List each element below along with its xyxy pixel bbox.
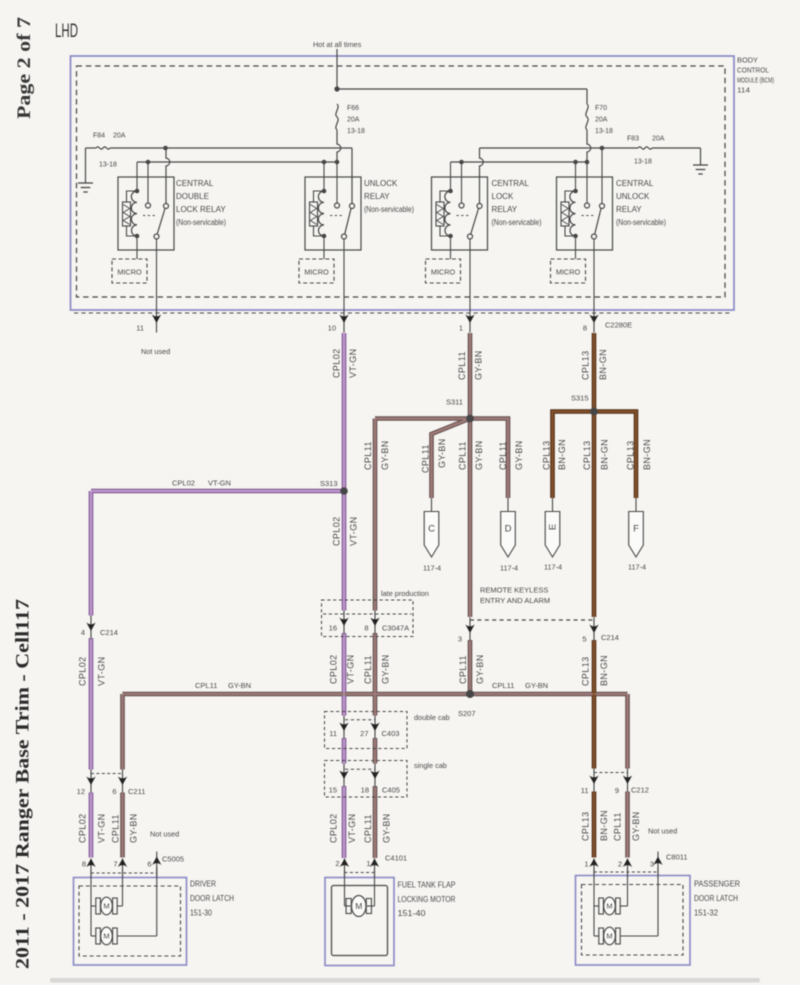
svg-text:BN-GN: BN-GN [598, 349, 608, 380]
svg-text:F: F [633, 524, 639, 535]
svg-text:F66: F66 [347, 105, 359, 112]
svg-text:CPL11: CPL11 [363, 655, 373, 684]
svg-text:CPL11: CPL11 [492, 681, 514, 690]
svg-text:10: 10 [328, 324, 336, 333]
svg-text:UNLOCK: UNLOCK [616, 192, 650, 201]
svg-text:2011 - 2017 Ranger Base Trim -: 2011 - 2017 Ranger Base Trim - Cell117 [13, 598, 34, 969]
svg-text:9: 9 [615, 786, 619, 795]
svg-text:PASSENGER: PASSENGER [694, 880, 740, 889]
svg-text:LOCK: LOCK [492, 192, 514, 201]
svg-text:CPL02: CPL02 [329, 654, 339, 684]
svg-text:CPL13: CPL13 [581, 656, 591, 686]
svg-text:VT-GN: VT-GN [348, 348, 358, 378]
svg-text:(Non-servicable): (Non-servicable) [364, 205, 414, 214]
svg-text:VT-GN: VT-GN [349, 516, 359, 546]
svg-text:1: 1 [584, 860, 588, 869]
svg-text:13-18: 13-18 [634, 159, 652, 166]
svg-text:BN-GN: BN-GN [642, 439, 652, 470]
svg-text:C405: C405 [382, 786, 400, 795]
svg-text:GY-BN: GY-BN [380, 440, 390, 470]
svg-text:BN-GN: BN-GN [599, 655, 609, 686]
svg-text:117-4: 117-4 [500, 564, 518, 573]
svg-text:BN-GN: BN-GN [599, 810, 609, 841]
svg-text:117-4: 117-4 [544, 563, 562, 572]
svg-text:117-4: 117-4 [628, 563, 646, 572]
svg-text:CENTRAL: CENTRAL [492, 179, 530, 188]
svg-text:E: E [548, 524, 559, 530]
svg-text:GY-BN: GY-BN [382, 813, 392, 843]
svg-text:CPL02: CPL02 [332, 348, 342, 378]
svg-text:ENTRY AND ALARM: ENTRY AND ALARM [480, 596, 550, 605]
svg-text:CPL11: CPL11 [363, 441, 373, 470]
svg-text:Not used: Not used [648, 827, 677, 836]
svg-text:CPL11: CPL11 [363, 814, 373, 843]
svg-text:11: 11 [581, 786, 589, 795]
svg-text:2: 2 [335, 859, 339, 868]
svg-text:(Non-servicable): (Non-servicable) [176, 218, 226, 227]
svg-text:CPL11: CPL11 [458, 655, 468, 684]
svg-text:151-30: 151-30 [190, 909, 212, 918]
svg-text:MICRO: MICRO [431, 268, 456, 277]
svg-text:CPL11: CPL11 [421, 444, 431, 473]
svg-text:late production: late production [381, 589, 429, 598]
svg-text:Hot at all times: Hot at all times [313, 40, 362, 49]
svg-text:6: 6 [147, 860, 151, 869]
svg-text:C2280E: C2280E [605, 321, 632, 330]
svg-text:CPL11: CPL11 [498, 441, 508, 470]
svg-text:20A: 20A [595, 117, 608, 124]
svg-text:GY-BN: GY-BN [437, 438, 447, 468]
svg-text:MODULE (BCM): MODULE (BCM) [737, 76, 774, 85]
svg-text:C4101: C4101 [385, 854, 407, 863]
svg-text:F84: F84 [93, 133, 105, 140]
svg-text:CPL02: CPL02 [78, 813, 88, 843]
svg-text:Not used: Not used [150, 830, 179, 839]
svg-text:GY-BN: GY-BN [475, 654, 485, 684]
svg-text:C211: C211 [128, 787, 145, 796]
svg-text:13-18: 13-18 [347, 128, 365, 135]
svg-text:13-18: 13-18 [595, 128, 613, 135]
svg-text:C5005: C5005 [162, 855, 184, 864]
svg-text:GY-BN: GY-BN [228, 681, 251, 690]
svg-text:DOOR LATCH: DOOR LATCH [694, 894, 738, 903]
svg-text:BN-GN: BN-GN [600, 439, 610, 470]
svg-text:CENTRAL: CENTRAL [176, 179, 214, 188]
svg-text:CPL02: CPL02 [332, 516, 342, 546]
svg-text:(Non-servicable): (Non-servicable) [492, 218, 542, 227]
svg-text:single cab: single cab [414, 761, 447, 770]
svg-text:MICRO: MICRO [117, 268, 142, 277]
svg-text:CONTROL: CONTROL [737, 66, 769, 75]
svg-text:151-32: 151-32 [694, 909, 719, 918]
svg-text:114: 114 [737, 86, 750, 95]
svg-text:Not used: Not used [141, 347, 170, 356]
svg-text:UNLOCK: UNLOCK [364, 179, 398, 188]
svg-text:CENTRAL: CENTRAL [616, 179, 654, 188]
svg-text:F70: F70 [595, 105, 607, 112]
svg-text:15: 15 [329, 786, 337, 795]
svg-text:S207: S207 [458, 709, 476, 718]
svg-text:FUEL TANK FLAP: FUEL TANK FLAP [398, 881, 456, 890]
svg-text:GY-BN: GY-BN [631, 811, 641, 841]
svg-text:CPL02: CPL02 [329, 813, 339, 843]
svg-text:LHD: LHD [55, 21, 78, 42]
svg-text:VT-GN: VT-GN [208, 479, 231, 488]
svg-text:GY-BN: GY-BN [474, 350, 484, 380]
svg-text:20A: 20A [347, 117, 360, 124]
svg-text:117-4: 117-4 [423, 564, 441, 573]
svg-text:11: 11 [136, 324, 144, 333]
svg-text:BN-GN: BN-GN [557, 439, 567, 470]
svg-text:CPL13: CPL13 [581, 350, 591, 380]
svg-text:11: 11 [329, 729, 337, 738]
svg-text:CPL11: CPL11 [458, 441, 468, 470]
svg-text:3: 3 [458, 635, 462, 644]
svg-text:CPL13: CPL13 [581, 811, 591, 841]
svg-text:27: 27 [360, 729, 368, 738]
svg-text:7: 7 [113, 860, 117, 869]
svg-text:CPL11: CPL11 [613, 812, 623, 841]
svg-text:D: D [505, 524, 512, 535]
svg-text:C8011: C8011 [666, 853, 688, 862]
svg-text:CPL11: CPL11 [111, 814, 121, 843]
svg-text:8: 8 [82, 860, 86, 869]
svg-text:DRIVER: DRIVER [190, 880, 216, 889]
svg-text:VT-GN: VT-GN [97, 813, 107, 843]
svg-text:DOUBLE: DOUBLE [176, 192, 209, 201]
svg-text:VT-GN: VT-GN [97, 656, 107, 686]
svg-text:Page 2 of 7: Page 2 of 7 [15, 17, 35, 119]
svg-text:CPL13: CPL13 [542, 440, 552, 470]
svg-text:GY-BN: GY-BN [474, 440, 484, 470]
svg-text:LOCK RELAY: LOCK RELAY [176, 205, 226, 214]
svg-text:20A: 20A [113, 133, 126, 140]
svg-text:CPL02: CPL02 [172, 479, 195, 488]
svg-text:13-18: 13-18 [99, 162, 117, 169]
svg-text:8: 8 [364, 624, 368, 633]
svg-text:C: C [428, 524, 435, 535]
svg-text:RELAY: RELAY [616, 205, 642, 214]
svg-text:double cab: double cab [414, 713, 450, 722]
svg-text:CPL13: CPL13 [626, 440, 636, 470]
svg-text:8: 8 [583, 324, 587, 333]
svg-text:S315: S315 [571, 394, 589, 403]
svg-text:F83: F83 [627, 136, 639, 143]
svg-text:16: 16 [329, 624, 337, 633]
svg-text:MICRO: MICRO [304, 268, 329, 277]
svg-text:20A: 20A [652, 136, 665, 143]
svg-text:CPL02: CPL02 [78, 656, 88, 686]
svg-text:2: 2 [618, 860, 622, 869]
svg-text:M: M [355, 901, 362, 911]
svg-text:LOCKING MOTOR: LOCKING MOTOR [398, 895, 456, 904]
svg-text:6: 6 [112, 787, 116, 796]
svg-text:BODY: BODY [737, 56, 758, 65]
svg-text:4: 4 [81, 628, 85, 637]
svg-text:M: M [606, 902, 612, 911]
svg-text:CPL13: CPL13 [582, 440, 592, 470]
svg-text:GY-BN: GY-BN [129, 813, 139, 843]
svg-text:M: M [103, 902, 109, 911]
svg-text:MICRO: MICRO [556, 268, 581, 277]
svg-text:GY-BN: GY-BN [514, 440, 524, 470]
svg-text:1: 1 [459, 324, 463, 333]
svg-text:DOOR LATCH: DOOR LATCH [190, 894, 234, 903]
svg-text:151-40: 151-40 [398, 909, 427, 918]
svg-text:S313: S313 [320, 479, 338, 488]
svg-text:GY-BN: GY-BN [525, 681, 548, 690]
svg-text:12: 12 [77, 787, 85, 796]
svg-text:C403: C403 [382, 729, 400, 738]
svg-text:GY-BN: GY-BN [381, 654, 391, 684]
svg-text:C214: C214 [100, 628, 118, 637]
svg-text:REMOTE KEYLESS: REMOTE KEYLESS [480, 586, 548, 595]
svg-text:C3047A: C3047A [382, 624, 409, 633]
svg-text:RELAY: RELAY [364, 192, 390, 201]
svg-text:(Non-servicable): (Non-servicable) [616, 218, 666, 227]
svg-text:S311: S311 [446, 398, 463, 407]
svg-text:M: M [606, 932, 612, 941]
svg-text:RELAY: RELAY [492, 205, 518, 214]
svg-text:CPL11: CPL11 [457, 351, 467, 380]
svg-text:18: 18 [361, 786, 369, 795]
svg-text:VT-GN: VT-GN [347, 813, 357, 843]
svg-text:C214: C214 [601, 633, 619, 642]
svg-text:CPL11: CPL11 [195, 681, 217, 690]
svg-text:1: 1 [366, 859, 370, 868]
svg-text:VT-GN: VT-GN [346, 654, 356, 684]
svg-text:3: 3 [650, 860, 654, 869]
svg-text:C212: C212 [631, 786, 649, 795]
svg-text:M: M [103, 932, 109, 941]
svg-text:5: 5 [582, 635, 586, 644]
